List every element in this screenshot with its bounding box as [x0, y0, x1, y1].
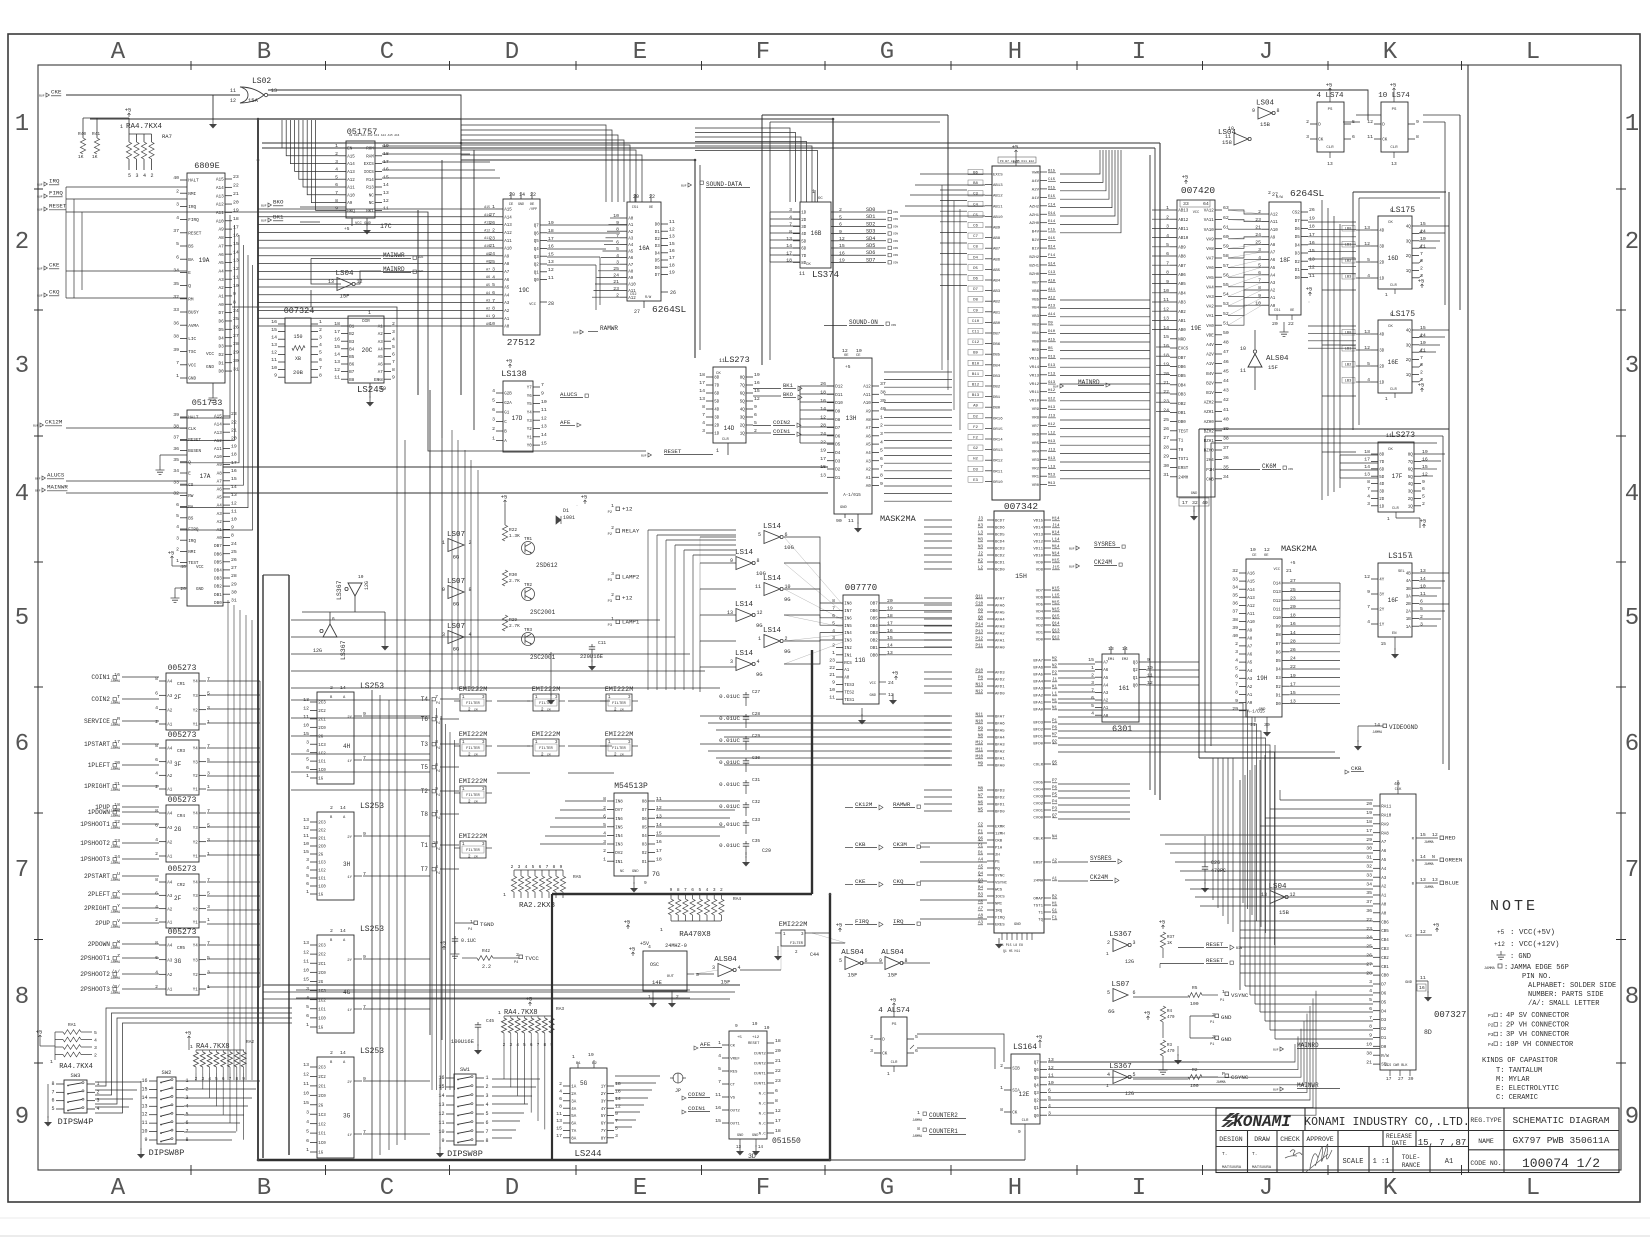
svg-text:PQ: PQ: [995, 868, 1000, 872]
svg-text:DB6: DB6: [1178, 366, 1186, 370]
svg-text:GND: GND: [196, 588, 204, 592]
svg-text:O1: O1: [642, 861, 648, 865]
svg-text:+5: +5: [1036, 1034, 1043, 1041]
svg-text:1B: 1B: [1406, 618, 1412, 622]
svg-text:EMI222M: EMI222M: [779, 921, 808, 929]
svg-text:0.01UC: 0.01UC: [719, 693, 740, 700]
svg-text:VD10: VD10: [1033, 555, 1043, 559]
svg-text:RA4.7KX4: RA4.7KX4: [126, 123, 163, 131]
svg-text:4: 4: [706, 887, 709, 893]
svg-text:7Q: 7Q: [1408, 461, 1414, 465]
svg-text:1: 1: [1385, 292, 1388, 298]
svg-text:A6: A6: [217, 488, 223, 493]
svg-text:17: 17: [669, 255, 675, 261]
svg-text:P4: P4: [514, 961, 518, 965]
label COUNTER2: [912, 1110, 966, 1122]
wire LS253 area horizontals: [291, 700, 430, 790]
svg-text:9: 9: [1416, 119, 1419, 125]
wire staircase X2 to 007327: [1058, 703, 1275, 945]
IC 6264SL 18F RAM: [1255, 188, 1324, 336]
svg-text:1: 1: [176, 373, 179, 379]
svg-text:NC: NC: [369, 202, 375, 206]
svg-text:A1: A1: [167, 789, 173, 793]
svg-text:A11: A11: [214, 447, 222, 452]
svg-text:D8: D8: [835, 419, 841, 423]
svg-text:23: 23: [114, 838, 120, 844]
svg-text:GND: GND: [518, 203, 524, 207]
svg-text:A2: A2: [167, 709, 173, 713]
svg-text:2: 2: [151, 173, 154, 179]
svg-text:4: 4: [155, 970, 158, 976]
svg-text:Q3: Q3: [1034, 1092, 1040, 1096]
svg-text:17F: 17F: [1392, 473, 1403, 480]
svg-text:CON: CON: [893, 247, 898, 250]
svg-text:BCD0: BCD0: [995, 569, 1005, 573]
svg-text:A4V: A4V: [1032, 180, 1040, 184]
capacitors C27-C35 0.01UC: [719, 689, 771, 867]
svg-text:SOUND-ON: SOUND-ON: [849, 319, 878, 326]
svg-text:BFA1: BFA1: [1033, 702, 1043, 706]
svg-text:7: 7: [1420, 355, 1423, 361]
svg-text:BFA3: BFA3: [995, 744, 1005, 748]
svg-text:DB4: DB4: [870, 625, 878, 629]
svg-text:5: 5: [306, 873, 309, 879]
svg-text:DB6: DB6: [993, 343, 1001, 347]
svg-text:SD7: SD7: [866, 257, 875, 263]
svg-text:VB2: VB2: [1032, 324, 1040, 328]
svg-text:3Q: 3Q: [1406, 240, 1412, 244]
svg-text:CM: CM: [547, 709, 551, 712]
svg-text:14: 14: [340, 928, 346, 934]
svg-text:A2: A2: [866, 469, 872, 473]
svg-text:CS1: CS1: [1274, 309, 1280, 313]
svg-text:VD4: VD4: [1036, 611, 1044, 615]
svg-text:6: 6: [332, 616, 335, 622]
svg-text:3: 3: [207, 970, 210, 976]
stub SYSRES bottom: [1058, 855, 1122, 864]
svg-text:A2: A2: [217, 520, 223, 525]
svg-text:RA10: RA10: [1381, 815, 1392, 819]
transistors TR1 TR2 TR3: [522, 536, 559, 661]
svg-text:T8: T8: [421, 811, 429, 818]
svg-text:11: 11: [303, 958, 309, 964]
ground driver section: [547, 652, 555, 705]
IC LS245 20C: [334, 310, 395, 407]
svg-text:IN1: IN1: [615, 861, 623, 865]
svg-text:470: 470: [1167, 1016, 1175, 1020]
svg-text:D14: D14: [1273, 583, 1281, 587]
svg-text:CK: CK: [730, 1045, 735, 1049]
svg-text:27: 27: [1398, 1076, 1404, 1082]
svg-text:D1: D1: [563, 508, 569, 514]
svg-text:JAMMA: JAMMA: [110, 679, 120, 683]
svg-text:CK3M: CK3M: [893, 841, 907, 848]
svg-text:AB2: AB2: [993, 301, 1001, 305]
svg-text:16: 16: [334, 336, 340, 342]
svg-text:27: 27: [634, 309, 640, 315]
svg-text:BUF: BUF: [37, 209, 43, 212]
svg-text:SD2: SD2: [866, 221, 875, 227]
svg-text:IN2: IN2: [844, 647, 852, 651]
svg-text:R/W: R/W: [645, 295, 652, 300]
svg-text:39: 39: [1232, 625, 1238, 631]
svg-text:3D: 3D: [714, 417, 720, 421]
svg-text:BCD2: BCD2: [995, 555, 1005, 559]
svg-text:4: 4: [492, 388, 495, 394]
svg-text:O7: O7: [642, 809, 648, 813]
svg-text:OUT: OUT: [667, 975, 675, 979]
svg-text:E: E: [188, 271, 191, 276]
signal CK12M: [33, 419, 187, 429]
svg-text:A3: A3: [866, 460, 872, 464]
svg-text:1D: 1D: [1379, 505, 1385, 509]
svg-text:2C3: 2C3: [318, 1067, 326, 1071]
svg-text:16: 16: [1309, 240, 1315, 246]
svg-text:CK: CK: [1388, 221, 1393, 225]
svg-text:A15: A15: [1247, 581, 1255, 585]
svg-text:FILTER: FILTER: [612, 702, 626, 706]
svg-text:6: 6: [1235, 674, 1238, 680]
svg-text:2: 2: [155, 917, 158, 923]
svg-text:A8: A8: [1247, 637, 1253, 641]
svg-text:3G: 3G: [174, 958, 182, 965]
svg-text:A6: A6: [378, 364, 384, 368]
svg-text:CKE: CKE: [51, 89, 62, 96]
svg-text:VA5: VA5: [1206, 277, 1214, 281]
svg-text:15: 15: [548, 251, 554, 257]
gates LS14 9G 10G sound inputs: [727, 523, 794, 678]
svg-text:A10: A10: [216, 219, 224, 224]
svg-text:6: 6: [691, 887, 694, 893]
svg-text:REG.TYPE: REG.TYPE: [1470, 1117, 1501, 1124]
svg-text:39: 39: [173, 412, 179, 418]
label COIN2 COIN1 out: [753, 419, 801, 436]
gate LS04 15B bottom: [1261, 883, 1296, 916]
svg-text:2C0: 2C0: [318, 972, 326, 976]
capacitor JP: [670, 1073, 686, 1094]
svg-text:A1: A1: [1381, 895, 1387, 899]
svg-text:4: 4: [155, 837, 158, 843]
svg-text:C26: C26: [1211, 860, 1220, 866]
svg-text:IOCS: IOCS: [995, 896, 1005, 900]
svg-text:1Y: 1Y: [347, 760, 352, 764]
svg-text:BFA0: BFA0: [995, 765, 1005, 769]
svg-text:12G: 12G: [1125, 959, 1134, 965]
svg-text:N2: N2: [1052, 665, 1058, 669]
svg-text:34: 34: [173, 468, 179, 474]
svg-text:29: 29: [1366, 837, 1372, 843]
svg-text:17: 17: [1182, 500, 1188, 506]
svg-text:K2: K2: [978, 560, 984, 564]
svg-text:BKQ: BKQ: [347, 210, 355, 214]
svg-text:5: 5: [306, 1004, 309, 1010]
svg-text:34: 34: [1232, 584, 1238, 590]
label TGND: [455, 919, 494, 932]
svg-text:2: 2: [1235, 641, 1238, 647]
svg-text:P2: P2: [1052, 672, 1058, 676]
svg-text:VD14: VD14: [1033, 527, 1043, 531]
svg-text:15: 15: [1420, 832, 1426, 838]
svg-text:40: 40: [1232, 633, 1238, 639]
svg-text:13: 13: [383, 190, 389, 196]
IC M54513P 7G: [603, 782, 662, 893]
svg-text:K14: K14: [1052, 532, 1060, 536]
svg-text:VD12: VD12: [1033, 541, 1043, 545]
svg-text:4: 4: [155, 771, 158, 777]
svg-text:7A: 7A: [571, 1130, 577, 1134]
svg-text:14: 14: [615, 1096, 621, 1102]
svg-text:Q0: Q0: [1133, 684, 1139, 688]
svg-text:7: 7: [186, 1129, 189, 1135]
svg-text:LS244: LS244: [574, 1149, 601, 1159]
svg-text:3: 3: [696, 972, 699, 978]
svg-text:D3: D3: [1381, 1019, 1387, 1023]
svg-text:+5: +5: [1418, 278, 1425, 285]
svg-text:Y4: Y4: [193, 681, 199, 685]
svg-text:+5: +5: [1418, 382, 1425, 389]
svg-text:D5: D5: [1381, 1001, 1387, 1005]
svg-text:9: 9: [754, 404, 757, 410]
svg-text:3B: 3B: [1406, 588, 1412, 592]
svg-text:A7: A7: [378, 371, 384, 375]
svg-text:A1: A1: [1052, 878, 1058, 882]
svg-text:3Q: 3Q: [740, 417, 746, 421]
svg-text:21: 21: [233, 191, 239, 197]
stub RESET a: [1178, 941, 1242, 951]
svg-text:TR1: TR1: [524, 536, 532, 542]
svg-text:1.3K: 1.3K: [509, 533, 520, 539]
svg-text:2SC2001: 2SC2001: [530, 609, 556, 616]
svg-text:1: 1: [1387, 516, 1390, 522]
svg-text:FILTER: FILTER: [466, 702, 480, 706]
svg-text:2B: 2B: [1406, 603, 1412, 607]
svg-text:CM: CM: [474, 709, 478, 712]
svg-text:8Y: 8Y: [601, 1137, 607, 1141]
svg-text:47: 47: [1223, 349, 1229, 355]
svg-text:8: 8: [559, 1103, 562, 1109]
svg-text:B11: B11: [972, 373, 980, 377]
svg-text:B7: B7: [349, 371, 355, 375]
svg-text:DB6: DB6: [214, 552, 222, 557]
stub GND P1 b: [1174, 1034, 1232, 1065]
svg-text:A2: A2: [1270, 290, 1276, 294]
svg-text:L: L: [1526, 1175, 1540, 1202]
svg-text:2: 2: [155, 851, 158, 857]
svg-text:B8: B8: [973, 182, 978, 186]
svg-text:15: 15: [754, 388, 760, 394]
svg-text:1Y: 1Y: [601, 1086, 607, 1090]
svg-text:A11: A11: [1270, 221, 1278, 225]
svg-text:CK12M: CK12M: [855, 801, 873, 808]
svg-text:SCALE: SCALE: [1342, 1158, 1363, 1166]
resistor array RA7 RA4.7KX4 and R40 R41: [78, 107, 172, 180]
svg-text:DB0: DB0: [870, 654, 878, 658]
svg-text:30: 30: [1366, 846, 1372, 852]
svg-text:+5: +5: [168, 550, 175, 557]
svg-text:A0: A0: [219, 303, 225, 308]
svg-text:Y0: Y0: [527, 445, 533, 449]
svg-text:5: 5: [207, 891, 210, 897]
IC 6264SL 16A RAM: [573, 194, 686, 335]
svg-text:21: 21: [1163, 380, 1169, 386]
svg-text:7: 7: [702, 412, 705, 418]
svg-text:C9: C9: [973, 309, 978, 313]
svg-text:AB3: AB3: [993, 290, 1001, 294]
resistors R22 R30 R29: [501, 494, 520, 631]
svg-text:JAMMA: JAMMA: [110, 826, 120, 830]
svg-text:005273: 005273: [168, 664, 197, 673]
svg-text:40: 40: [1223, 416, 1229, 422]
svg-text:AB0: AB0: [993, 322, 1001, 326]
svg-text:C: C: [380, 39, 394, 66]
svg-text:D: D: [505, 39, 519, 66]
svg-text:20: 20: [1163, 371, 1169, 377]
svg-text:7: 7: [880, 464, 883, 470]
svg-text:2D: 2D: [1379, 498, 1385, 502]
svg-text:5: 5: [615, 1126, 618, 1132]
svg-text:A4V: A4V: [1206, 344, 1214, 348]
svg-text:A9: A9: [1247, 629, 1253, 633]
svg-text:9G: 9G: [756, 671, 763, 678]
svg-text:RELAY: RELAY: [622, 528, 640, 535]
svg-text:11: 11: [271, 357, 277, 363]
label CK6M: [1222, 463, 1293, 471]
svg-text:20: 20: [233, 199, 239, 205]
svg-text:F: F: [756, 1175, 770, 1202]
svg-text:Y1: Y1: [193, 989, 199, 993]
svg-text:7: 7: [392, 359, 395, 365]
svg-text:11: 11: [541, 407, 547, 413]
svg-text:SERVICE: SERVICE: [84, 718, 110, 725]
svg-text:1: 1: [306, 773, 309, 779]
svg-text:+5: +5: [125, 107, 132, 114]
svg-text:3: 3: [486, 1093, 489, 1099]
svg-text:2Y: 2Y: [347, 1081, 352, 1085]
svg-text:6: 6: [155, 891, 158, 897]
svg-text:33: 33: [173, 479, 179, 485]
svg-text:A7: A7: [1103, 662, 1109, 666]
svg-text:D9: D9: [835, 411, 841, 415]
svg-text:DB0: DB0: [993, 407, 1001, 411]
svg-text:7: 7: [1625, 857, 1639, 884]
svg-text:D6: D6: [1276, 651, 1282, 655]
svg-text:A12: A12: [1247, 605, 1255, 609]
svg-text:D1: D1: [655, 231, 661, 235]
svg-text:GREEN: GREEN: [1445, 857, 1463, 864]
svg-text:1D: 1D: [1379, 382, 1385, 386]
svg-text:5: 5: [207, 691, 210, 697]
svg-text:1: 1: [120, 124, 123, 130]
svg-text:RAMWR: RAMWR: [600, 325, 618, 332]
IC 27512 19C EPROM: [489, 192, 554, 348]
svg-text:37: 37: [1366, 899, 1372, 905]
svg-text:A7: A7: [217, 479, 223, 484]
resistor array RA2 RA4.7KX8: [185, 1030, 255, 1083]
svg-text:BUF: BUF: [37, 196, 43, 199]
svg-text:6: 6: [1091, 695, 1094, 701]
svg-text:1Y: 1Y: [347, 1009, 352, 1013]
svg-text:C: CERAMIC: C: CERAMIC: [1496, 1094, 1538, 1102]
svg-text:RA9: RA9: [1381, 823, 1389, 827]
svg-text:2G: 2G: [318, 1104, 324, 1108]
svg-text:4: 4: [702, 420, 705, 426]
svg-text:C6: C6: [973, 225, 978, 229]
svg-text:+5V: +5V: [640, 941, 649, 947]
svg-text:ALPHABET: SOLDER SIDE: ALPHABET: SOLDER SIDE: [1528, 982, 1616, 990]
svg-text:18: 18: [1364, 449, 1370, 455]
svg-text:19C: 19C: [519, 287, 530, 294]
svg-text:6: 6: [176, 254, 179, 260]
svg-text:D7: D7: [1381, 984, 1387, 988]
svg-text:10P VH CONNECTOR: 10P VH CONNECTOR: [1506, 1041, 1574, 1049]
svg-text:1Q: 1Q: [1406, 270, 1412, 274]
svg-text:4: 4: [1625, 481, 1639, 508]
svg-text:LS157: LS157: [1388, 552, 1412, 561]
gate ALS04 15F b3: [879, 949, 908, 979]
svg-text:14: 14: [758, 1146, 764, 1150]
svg-text:VR10: VR10: [1029, 400, 1039, 404]
svg-text:13: 13: [271, 342, 277, 348]
svg-text:19H: 19H: [1257, 675, 1268, 682]
svg-text:Q12: Q12: [1052, 637, 1060, 641]
svg-text:Q1 H5 H11: Q1 H5 H11: [1003, 949, 1020, 953]
svg-text:A5: A5: [504, 287, 510, 291]
svg-text:D5: D5: [973, 267, 978, 271]
svg-text:9: 9: [392, 374, 395, 380]
svg-text:4D: 4D: [1379, 483, 1385, 487]
svg-text:Q4: Q4: [534, 248, 540, 252]
svg-text::: :: [1504, 964, 1508, 972]
svg-text:13: 13: [656, 813, 662, 819]
svg-text:O8: O8: [642, 801, 648, 805]
svg-text:15F: 15F: [721, 979, 731, 986]
svg-text:F: F: [756, 39, 770, 66]
svg-text:P3: P3: [608, 579, 612, 583]
svg-text:8: 8: [155, 808, 158, 814]
svg-text:8: 8: [757, 558, 760, 564]
svg-text:VB5: VB5: [1032, 298, 1040, 302]
svg-text:CBLK: CBLK: [1033, 838, 1043, 842]
svg-text:23: 23: [1366, 926, 1372, 932]
svg-text:55: 55: [1223, 282, 1229, 288]
svg-text:15F: 15F: [848, 972, 858, 979]
svg-text:19: 19: [1366, 810, 1372, 816]
svg-text:62: 62: [1223, 215, 1229, 221]
svg-text:12: 12: [541, 415, 547, 421]
svg-text:EXCS: EXCS: [993, 174, 1003, 178]
svg-text:VA2: VA2: [1206, 306, 1214, 310]
svg-text:BFA4: BFA4: [995, 737, 1005, 741]
svg-text:LS245: LS245: [357, 385, 384, 395]
svg-text:Y5: Y5: [527, 403, 533, 407]
svg-text:16: 16: [754, 380, 760, 386]
svg-text:FILTER: FILTER: [539, 747, 553, 751]
svg-text:13: 13: [1327, 161, 1333, 167]
svg-text:VR11: VR11: [1029, 391, 1039, 395]
svg-text:E1: E1: [978, 831, 984, 835]
oscillator 24MHZ-0 14E: [629, 941, 699, 1008]
svg-text:15F: 15F: [1268, 364, 1278, 371]
svg-text:JAMMA: JAMMA: [1424, 885, 1434, 889]
svg-text:31: 31: [231, 598, 237, 604]
svg-text:100: 100: [1190, 1083, 1199, 1089]
svg-text:10: 10: [541, 399, 547, 405]
svg-text:64: 64: [1203, 201, 1209, 207]
svg-text:1: 1: [470, 919, 473, 925]
svg-text:C10: C10: [975, 603, 983, 607]
svg-text:17: 17: [1386, 1076, 1392, 1082]
svg-text:36: 36: [173, 320, 179, 326]
